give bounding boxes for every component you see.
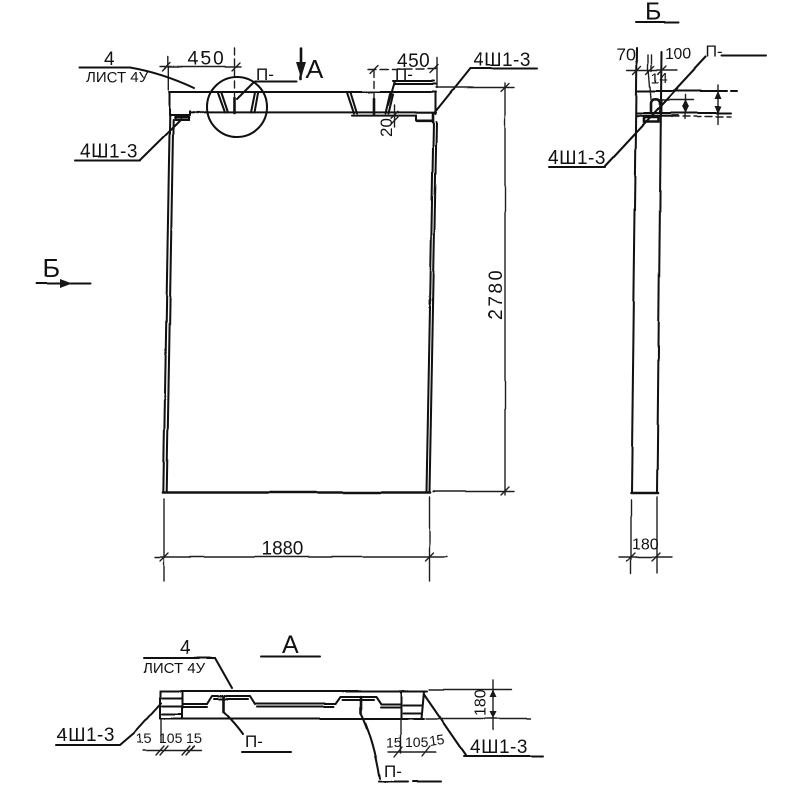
- label П- left leader: [237, 82, 254, 99]
- front view top rail left end: [168, 92, 170, 115]
- front view left corner step: [175, 117, 189, 121]
- dimension tick at 637: [633, 66, 641, 74]
- front view right edge double line: [427, 122, 437, 493]
- svg-text:ЛИСТ 4У: ЛИСТ 4У: [86, 69, 149, 86]
- label П- left underline: [255, 80, 297, 82]
- label П- bottom right underline: [379, 780, 441, 783]
- label П- bottom left leader: [224, 712, 243, 734]
- side view top surface: [637, 90, 738, 92]
- dimension 15-105-15 right hatch: [394, 746, 430, 757]
- svg-text:20: 20: [377, 118, 396, 137]
- label П- bottom right leader: [361, 713, 380, 779]
- dimension 450 right tick A: [370, 65, 378, 73]
- keyway group 2 left slant lines: [347, 93, 357, 114]
- label 4Ш1-3 left underline: [75, 159, 140, 161]
- side view embedded plate 4Ш1-3: [644, 117, 659, 122]
- keyway slot 2: [373, 99, 376, 114]
- embedded plate mark right 4Ш1-3: [417, 115, 433, 123]
- dimension 180 side line: [619, 556, 672, 558]
- label П- right leader: [388, 81, 395, 105]
- view title А underline: [261, 655, 320, 657]
- label 4Ш1-3 left leader: [140, 120, 181, 161]
- svg-text:Б: Б: [43, 253, 60, 283]
- dimension 14 extension lines: [648, 55, 652, 99]
- side view hook reference line: [660, 99, 693, 101]
- label 4Ш1-3 side underline: [549, 166, 605, 168]
- dimension 180 line: [493, 680, 495, 730]
- svg-text:15: 15: [186, 730, 202, 746]
- section profile bump 2: [336, 697, 381, 705]
- svg-text:105: 105: [159, 730, 183, 746]
- section bottom outline: [160, 717, 424, 719]
- section right block inner edge: [400, 691, 402, 719]
- front view top rail bottom line: [190, 111, 416, 113]
- side dim outer arrow down: [715, 106, 722, 114]
- label 4Ш1-3 bottom left leader: [120, 703, 161, 745]
- view title Б underline: [636, 21, 679, 23]
- label 4Ш1-3 top right underline: [470, 67, 537, 69]
- label П- right underline: [393, 81, 436, 84]
- svg-text:450: 450: [188, 49, 226, 70]
- dimension 15-105-15 left base line: [143, 750, 201, 752]
- dimension 1880 tick left: [160, 553, 168, 561]
- svg-text:100: 100: [665, 46, 692, 63]
- dimension 15-105-15 right extension: [400, 719, 402, 753]
- dimension 180 side tick right: [652, 553, 660, 561]
- detail circle: [207, 77, 267, 137]
- dimension 180 side right extension: [656, 497, 658, 573]
- side view right edge: [657, 52, 662, 493]
- svg-text:4: 4: [180, 638, 191, 659]
- label 4 bottom underline: [144, 657, 215, 659]
- svg-text:450: 450: [397, 51, 430, 72]
- side dim inner arrow up: [682, 100, 689, 108]
- section right end edge: [422, 691, 425, 719]
- section keyway slot left: [222, 697, 225, 712]
- svg-text:П-: П-: [245, 732, 263, 751]
- dimension 1880 line: [155, 556, 447, 558]
- dimension 15-105-15 left hatch: [156, 746, 194, 755]
- side view keyway hook: [651, 99, 660, 112]
- dimension 2780 tick top: [501, 84, 509, 92]
- section left block stripes: [162, 698, 182, 714]
- side dim outer line: [717, 85, 719, 124]
- dimension 2780 top extension: [436, 87, 514, 89]
- dimension 180 arrow down: [490, 711, 497, 719]
- embedded plate mark left 4Ш1-3: [175, 116, 189, 119]
- keyway slot 1 centerline: [234, 48, 236, 97]
- svg-text:2780: 2780: [486, 268, 507, 320]
- section right block stripes: [403, 705, 422, 713]
- front view panel top edge: [352, 115, 416, 117]
- side dim inner arrow down: [682, 106, 689, 114]
- section top outline: [160, 690, 427, 692]
- svg-text:4Ш1-3: 4Ш1-3: [57, 725, 115, 746]
- keyway slot 2 centerline: [373, 70, 375, 98]
- section profile right valley: [381, 704, 401, 707]
- svg-text:П-: П-: [706, 44, 723, 61]
- section keyway slot right: [360, 697, 363, 714]
- label 4Ш1-3 bottom right underline: [464, 755, 543, 757]
- dimension 450 left tick A: [163, 63, 171, 71]
- label 4Ш1-3 bottom right leader: [424, 694, 466, 755]
- section profile center: [255, 704, 336, 707]
- dimension 450 right extension: [436, 58, 438, 88]
- svg-text:180: 180: [632, 536, 659, 553]
- dimension 180 top extension: [429, 689, 512, 691]
- side view plate dashed extension: [672, 116, 731, 118]
- label 4Ш1-3 bottom left underline: [56, 744, 120, 746]
- dimension 20 line: [394, 105, 396, 127]
- svg-text:4Ш1-3: 4Ш1-3: [470, 737, 528, 758]
- dimension 2780 tick bottom: [501, 487, 509, 495]
- dimension 180 arrow up: [490, 690, 497, 698]
- label 4 bottom leader: [215, 658, 232, 688]
- svg-text:4Ш1-3: 4Ш1-3: [548, 148, 606, 169]
- label П- side / 4Ш1-3 leader: [605, 57, 706, 166]
- dimension 450 left line: [160, 66, 241, 68]
- dimension 180 bottom extension: [426, 718, 531, 720]
- dimension 1880 right extension: [429, 497, 431, 581]
- section profile left valley: [182, 704, 207, 707]
- label 4 top underline: [79, 66, 130, 68]
- side view left edge: [632, 48, 638, 493]
- keyway group 1 left slant lines: [218, 93, 228, 113]
- svg-text:180: 180: [473, 689, 490, 716]
- svg-text:15: 15: [428, 731, 446, 749]
- side dim outer arrow up: [715, 91, 722, 99]
- dimension tick at 650: [646, 66, 654, 74]
- side view flange bottom line: [637, 112, 732, 114]
- dimension tick at 662: [658, 66, 666, 74]
- label 4Ш1-3 top right leader: [433, 69, 470, 115]
- dimension 450 right tick B: [430, 65, 438, 73]
- dimension 450 left tick B: [232, 63, 240, 71]
- front view top rail right end: [434, 92, 436, 114]
- side dim inner line: [684, 95, 686, 119]
- dimension 180 side left extension: [630, 500, 632, 573]
- front view right corner step: [416, 116, 433, 121]
- dimension 2780 line: [504, 83, 506, 495]
- dimension 70-100 line: [627, 69, 677, 71]
- svg-text:4Ш1-3: 4Ш1-3: [80, 142, 138, 163]
- dimension 15-105-15 right base line: [388, 751, 436, 753]
- dimension 450 right line: [368, 68, 438, 70]
- svg-text:105: 105: [405, 734, 429, 750]
- dimension 20 arrow up: [391, 111, 398, 118]
- svg-text:15: 15: [136, 730, 152, 746]
- svg-text:1880: 1880: [261, 539, 303, 560]
- keyway group 2 right slant lines: [386, 94, 394, 114]
- svg-text:ЛИСТ 4У: ЛИСТ 4У: [143, 660, 206, 677]
- dimension 2780 bottom extension: [433, 491, 514, 493]
- svg-text:А: А: [306, 54, 324, 84]
- dimension 180 side tick left: [627, 553, 635, 561]
- label П- bottom left underline: [242, 751, 291, 753]
- label 4 top leader: [130, 68, 194, 89]
- section left end edge: [159, 691, 161, 719]
- section marker Б line: [37, 282, 91, 284]
- section profile bump 1: [207, 696, 255, 704]
- dimension 20 arrow down: [391, 117, 398, 124]
- keyway slot 1: [233, 98, 236, 113]
- side view bottom edge: [631, 492, 658, 495]
- keyway group 1 right slant lines: [251, 93, 258, 113]
- dimension 1880 left extension: [163, 499, 165, 581]
- section left block inner edge: [181, 691, 183, 719]
- svg-text:70: 70: [617, 45, 636, 64]
- svg-text:А: А: [282, 631, 299, 659]
- dimension 450 left extension: [167, 57, 169, 90]
- section marker Б arrow: [60, 279, 72, 288]
- section cut arrow А: [300, 48, 303, 79]
- svg-text:П-: П-: [384, 762, 402, 781]
- label П- side line: [722, 55, 766, 57]
- front view left edge double line: [163, 115, 173, 493]
- front view top rail top line: [169, 91, 436, 93]
- svg-text:15: 15: [386, 734, 402, 750]
- front view bottom edge: [163, 491, 430, 494]
- dimension 1880 tick right: [426, 553, 434, 561]
- dimension 15-105-15 left extension: [160, 719, 162, 742]
